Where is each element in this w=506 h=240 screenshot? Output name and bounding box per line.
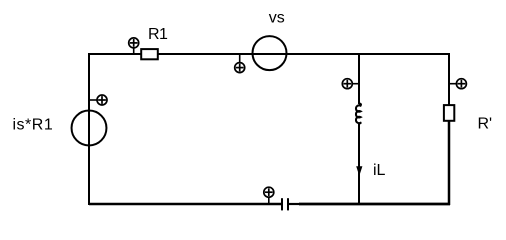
wire right lower (thicker) <box>448 121 451 205</box>
wire middle branch lower (inductor to bottom node) <box>358 123 360 204</box>
inductor L (coil) <box>356 103 361 123</box>
polarity marker plus (vs) <box>235 54 245 73</box>
wire bottom right node run (thicker) <box>299 203 450 206</box>
svg-text:R1: R1 <box>148 26 168 43</box>
polarity marker plus (R1) <box>129 38 139 54</box>
svg-text:is*R1: is*R1 <box>13 117 54 134</box>
wire left <box>88 53 90 205</box>
wire bottom right segment <box>288 203 300 205</box>
polarity marker plus (R') <box>449 79 466 89</box>
polarity marker plus (L) <box>342 79 359 89</box>
svg-text:iL: iL <box>373 162 386 179</box>
wire right <box>448 53 450 123</box>
wire top (node between is*R1 source, R1, vs) <box>89 53 449 55</box>
polarity marker plus (C) <box>264 187 274 204</box>
source vs <box>253 36 287 70</box>
source is*R1 <box>72 111 107 146</box>
resistor R1 <box>141 49 158 59</box>
svg-text:vs: vs <box>269 10 285 27</box>
polarity marker plus (is*R1) <box>89 95 107 105</box>
current arrow iL <box>356 166 362 176</box>
wire bottom left segment <box>89 203 282 206</box>
wire middle branch upper (top node to inductor) <box>358 54 360 104</box>
capacitor C (plates) <box>282 198 288 210</box>
resistor R' <box>444 105 454 121</box>
svg-text:R': R' <box>478 116 493 133</box>
